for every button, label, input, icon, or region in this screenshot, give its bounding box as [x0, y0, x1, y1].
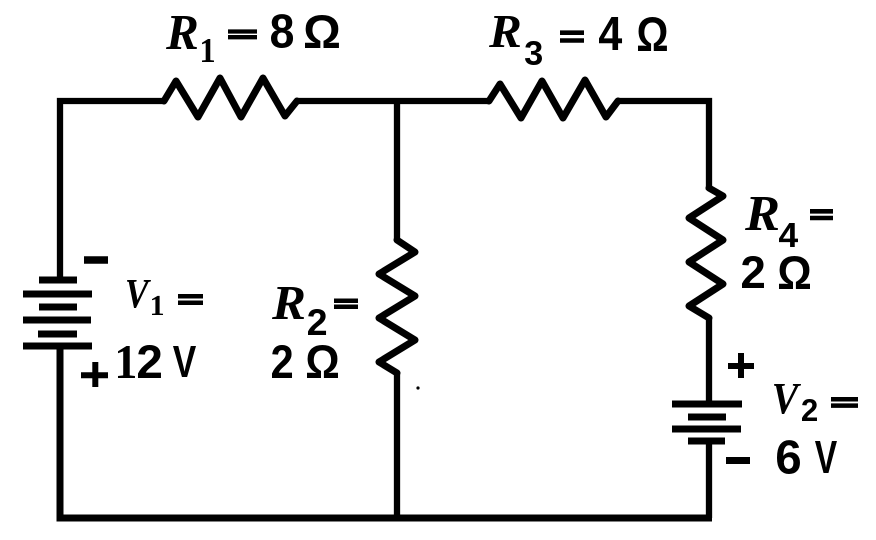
label: "2 ohm" value of R2: [272, 345, 338, 378]
label: "12 V" value of V1: [118, 345, 196, 378]
wire: top-left corner (left vertical upper + top-left horizontal): [60, 101, 164, 280]
label R3: "R3 = 4 ohm": [489, 16, 667, 65]
label: minus sign of battery V2: [726, 457, 750, 464]
label: "6 V" value of V2: [777, 440, 837, 474]
resistor R3 (zigzag, 4 ohm): [489, 80, 618, 118]
label: plus sign of battery V2: [728, 353, 754, 378]
label R2: "R2 =": [272, 287, 358, 335]
resistor R1 (zigzag, 8 ohm): [164, 78, 297, 117]
label: minus sign of battery V1: [84, 256, 108, 264]
wire: top middle segment between R1 and R3: [297, 98, 489, 104]
label V2: "V2 =": [774, 384, 858, 421]
battery V1 plate 6 (long, +): [23, 343, 92, 350]
wire: bottom rail and bottom-left corner up to battery V1: [60, 346, 712, 518]
battery V1 plate 4 (long): [23, 317, 91, 324]
resistor R4 (vertical zigzag, 2 ohm): [689, 188, 723, 318]
battery V2 plate 3 (long): [672, 426, 741, 433]
ink speck artifact near R2: [416, 386, 419, 389]
label R1: "R1 = 8 ohm": [166, 14, 339, 62]
wire: top-right corner down to R4: [618, 101, 709, 190]
battery V1 plate 5 (short): [38, 331, 77, 338]
battery V2 plate 2 (short): [688, 414, 726, 421]
battery V2 plate 4 (short, -): [688, 438, 725, 445]
battery V1 plate 2 (long): [23, 291, 92, 298]
battery V1 plate 3 (short): [39, 304, 77, 311]
label: plus sign of battery V1: [81, 362, 108, 387]
label V1: "V1 =": [127, 280, 203, 315]
wire: battery V2 bottom to bottom-right corner: [706, 441, 712, 518]
wire: between R4 and battery V2: [706, 319, 712, 404]
label: "2 ohm" value of R4: [742, 256, 810, 289]
battery V2 plate 1 (long, +): [672, 401, 742, 408]
wire: R2 branch from top node down to zigzag: [394, 101, 400, 240]
battery V1 plate 1 (short, -): [39, 277, 77, 284]
label R4: "R4 =": [745, 197, 833, 247]
resistor R2 (vertical zigzag, 2 ohm): [379, 240, 415, 373]
wire: R2 bottom branch down to bottom rail: [394, 373, 400, 518]
